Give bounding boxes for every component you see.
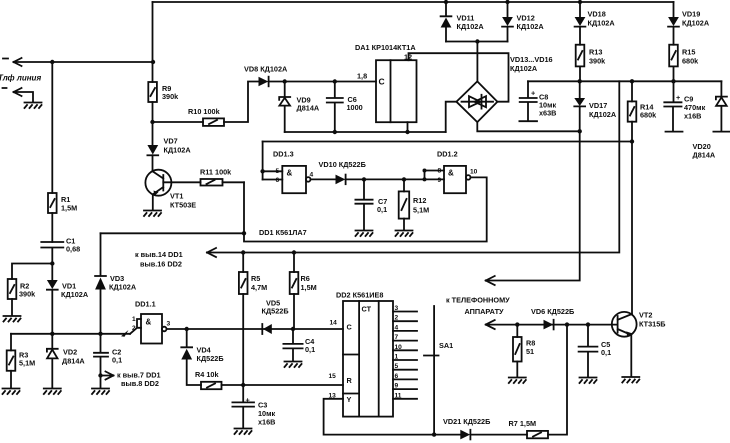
node junction VD17 top [578, 79, 582, 83]
capacitor C3 electrolytic [232, 385, 254, 428]
wire left column down from tlf junction [51, 62, 53, 193]
svg-text:0,1: 0,1 [112, 356, 122, 365]
svg-text:4: 4 [310, 172, 314, 179]
wire main left vertical top [152, 2, 154, 82]
capacitor C5 [579, 325, 598, 377]
node junction VD9 [283, 79, 287, 83]
svg-text:выв.8 DD2: выв.8 DD2 [121, 379, 159, 388]
node DD1.1 output bubble [162, 327, 167, 332]
svg-text:VT2: VT2 [639, 311, 652, 320]
zener VD2 [47, 334, 58, 388]
resistor R1 [48, 193, 57, 213]
svg-text:14: 14 [330, 320, 338, 327]
svg-text:2: 2 [395, 315, 399, 322]
wire R junction to DD2 R pin [243, 384, 343, 386]
wire R3 to ground [10, 371, 12, 388]
svg-text:DD1.1: DD1.1 [135, 300, 156, 309]
svg-text:12: 12 [404, 53, 412, 62]
svg-text:7: 7 [395, 334, 399, 341]
ground below R8 [509, 378, 526, 384]
svg-text:x16В: x16В [684, 112, 701, 121]
wire VD11 VD12 link [446, 41, 508, 43]
node junction C2 arrow takeoff [98, 373, 102, 377]
wire DD1.1 out to DD2 C [167, 328, 344, 330]
ground below VT1 emitter [144, 211, 161, 217]
svg-text:680k: 680k [640, 111, 657, 120]
node junction R2 branch [50, 261, 54, 265]
ground below R2 [4, 316, 21, 322]
node junction R10 takeoff [150, 120, 154, 124]
resistor R12 [403, 179, 405, 191]
svg-text:VD19: VD19 [682, 10, 700, 19]
svg-text:КД102А: КД102А [457, 22, 485, 31]
svg-text:КД102А: КД102А [109, 283, 137, 292]
wire R14 bottom to rail2 [631, 122, 633, 142]
node junction C4 R6 [291, 327, 295, 331]
svg-text:VT1: VT1 [170, 192, 183, 201]
resistor R10 [203, 118, 224, 126]
wire rail2 DD1 supply top [263, 141, 632, 143]
node junction VD11 top [444, 0, 448, 4]
wire R13 to junction [579, 66, 581, 81]
wire bus to R3 [10, 334, 12, 351]
node junction C6 bottom [333, 130, 337, 134]
wire DA1 pin 12 to bridge right corner [409, 53, 509, 101]
op-amp U1 DA1 box [376, 60, 417, 122]
svg-text:VD7: VD7 [164, 137, 178, 146]
capacitor C1 [41, 242, 63, 264]
node junction C6 [333, 79, 337, 83]
svg-text:9: 9 [438, 177, 442, 184]
svg-text:VD18: VD18 [588, 10, 606, 19]
ground below C4 [285, 362, 302, 368]
node junction VD12 top [505, 0, 509, 4]
wire bridge bottom to rail [477, 122, 579, 131]
svg-text:5,1М: 5,1М [19, 359, 35, 368]
node junction R15 bottom C9 [671, 79, 675, 83]
wire top rail [153, 1, 674, 3]
wire VD3 link left [101, 232, 245, 234]
wire telephone line horizontal [14, 61, 154, 63]
wire power rail to DD chips [207, 81, 619, 252]
node DD1.3 output bubble [306, 177, 311, 182]
wire rail2 corner to DD1.3 inputs [262, 142, 264, 180]
node junction VD3 bus [98, 332, 102, 336]
svg-text:КД522Б: КД522Б [262, 307, 289, 316]
wire R7 up to phone line [548, 325, 567, 435]
svg-text:5: 5 [276, 168, 280, 175]
svg-text:15: 15 [329, 373, 337, 380]
wire arrow 2 to line with ground [3, 88, 34, 102]
node junction VD4 [185, 327, 189, 331]
ground below R12 [396, 231, 413, 237]
svg-text:8: 8 [438, 168, 442, 175]
ground below R3 [3, 389, 20, 395]
capacitor C6 [327, 82, 343, 133]
svg-text:&: & [287, 169, 293, 178]
ground below arrow 2 [25, 103, 42, 109]
svg-text:1: 1 [132, 316, 136, 323]
diode VD5 [261, 324, 263, 334]
svg-text:R: R [347, 376, 353, 385]
svg-text:R4 10k: R4 10k [195, 370, 219, 379]
svg-text:R5: R5 [251, 274, 260, 283]
node junction tlf line [50, 60, 54, 64]
svg-text:Тлф линия: Тлф линия [0, 74, 41, 83]
svg-text:&: & [448, 169, 454, 178]
diode VD11 [441, 2, 452, 16]
svg-text:КД102А: КД102А [588, 19, 616, 28]
logic gate DD1.1 [141, 314, 162, 344]
resistor R8 [516, 325, 518, 337]
wire rail corner to VD20 [720, 81, 722, 96]
svg-text:680k: 680k [682, 57, 699, 66]
svg-text:10: 10 [470, 169, 478, 176]
node junction R12 [402, 177, 406, 181]
svg-text:x63В: x63В [539, 109, 556, 118]
svg-text:13: 13 [329, 393, 337, 400]
svg-text:+: + [531, 89, 535, 98]
resistor R3 [7, 350, 16, 370]
svg-text:0,1: 0,1 [601, 348, 611, 357]
diode VD21 [460, 430, 470, 440]
svg-text:5,1М: 5,1М [413, 206, 429, 215]
svg-text:Y: Y [347, 395, 352, 404]
wire arrow to telephone upper [486, 276, 495, 285]
node junction DD1.3 pin5 [260, 169, 264, 173]
svg-text:2: 2 [132, 325, 136, 332]
diode VD18 [579, 2, 581, 17]
svg-text:51: 51 [526, 347, 534, 356]
svg-text:Д814А: Д814А [62, 357, 85, 366]
svg-text:390k: 390k [589, 57, 606, 66]
svg-text:0,1: 0,1 [305, 345, 315, 354]
wire DD2 output stubs [393, 312, 417, 399]
ground below C5 [580, 378, 597, 384]
svg-text:R6: R6 [301, 274, 310, 283]
wire DD2 Y pin loop bottom [324, 399, 461, 435]
wire VD21 to R7 [470, 434, 527, 436]
svg-text:DA1 КР1014КТ1А: DA1 КР1014КТ1А [355, 43, 416, 52]
node junction bridge top feed [475, 39, 479, 43]
ground below VT2 [622, 377, 639, 383]
svg-text:SA1: SA1 [439, 341, 453, 350]
svg-text:+: + [676, 93, 680, 102]
svg-text:Д814А: Д814А [693, 151, 716, 160]
capacitor C8 electrolytic [519, 81, 537, 121]
node junction VD18 top rail [578, 0, 582, 4]
svg-text:DD1.2: DD1.2 [437, 150, 458, 159]
svg-text:VD8 КД102А: VD8 КД102А [244, 65, 288, 74]
wire arrow 1 to line [3, 58, 22, 66]
svg-text:СТ: СТ [362, 305, 372, 314]
resistor R15 [669, 45, 678, 67]
svg-text:КД102А: КД102А [517, 22, 545, 31]
node junction SA1 bottom [432, 432, 436, 436]
svg-text:4: 4 [395, 324, 399, 331]
svg-text:АППАРАТУ: АППАРАТУ [465, 307, 505, 316]
svg-text:DD2 К561ИЕ8: DD2 К561ИЕ8 [336, 291, 383, 300]
diode VD3 [95, 275, 106, 277]
svg-text:VD10 КД522Б: VD10 КД522Б [319, 160, 366, 169]
wire to bridge top corner [476, 42, 478, 82]
diode VD6 [544, 320, 554, 330]
svg-text:КТ503Е: КТ503Е [170, 201, 196, 210]
svg-text:390k: 390k [19, 290, 36, 299]
wire DD1.2 input tie [425, 171, 445, 180]
svg-text:R12: R12 [413, 196, 426, 205]
svg-text:Д814А: Д814А [297, 104, 320, 113]
svg-text:1: 1 [395, 354, 399, 361]
svg-text:6: 6 [395, 373, 399, 380]
switch SA1 [424, 306, 439, 435]
wire bridge left corner to DA1 [446, 102, 457, 132]
svg-text:C: C [347, 323, 353, 332]
svg-text:КД102А: КД102А [510, 64, 538, 73]
svg-text:R7 1,5М: R7 1,5М [509, 419, 537, 428]
wire DA1 bottom stub [407, 122, 409, 132]
wire R10 branch [153, 121, 204, 123]
svg-text:11: 11 [395, 392, 402, 399]
svg-text:1,5М: 1,5М [301, 283, 317, 292]
svg-text:9: 9 [395, 383, 399, 390]
wire bus to DD1.1 inputs [130, 319, 141, 334]
wire VT2 collector from R14 rail [631, 142, 633, 315]
capacitor C4 [283, 329, 302, 361]
wire top supply rail right [528, 80, 721, 82]
svg-text:КД102А: КД102А [682, 19, 710, 28]
diode VD8 [259, 77, 269, 87]
svg-text:VD6 КД522Б: VD6 КД522Б [531, 307, 574, 316]
wire DD1.2 out loop down to R11 [244, 177, 487, 241]
wire arrow power rail [207, 248, 216, 257]
diode VD19 [673, 2, 675, 17]
ground below C2 [92, 389, 109, 395]
svg-text:0,1: 0,1 [377, 205, 387, 214]
node junction DA1 bottom pin [405, 130, 409, 134]
svg-text:R11 100k: R11 100k [200, 168, 232, 177]
wire arrow to telephone lower [486, 320, 612, 329]
resistor R9 [148, 82, 157, 102]
svg-text:КД102А: КД102А [61, 290, 89, 299]
svg-text:3: 3 [167, 321, 171, 328]
wire VD3 column [100, 233, 102, 275]
resistor R14 [631, 81, 633, 101]
wire bottom of VD9 C6 to DA1 pin [285, 131, 446, 133]
node DD1.2 output bubble [466, 175, 471, 180]
capacitor C9 electrolytic [664, 81, 682, 131]
node junction R6 top [292, 250, 296, 254]
wire DD1.3 input stubs [263, 171, 283, 179]
diode VD12 [507, 2, 509, 17]
svg-text:R13: R13 [589, 48, 602, 57]
wire R4 to R5 column [222, 384, 244, 386]
diode VD7 [147, 145, 158, 155]
resistor R13 [576, 45, 585, 67]
wire R10 to VD8 corner [224, 82, 259, 123]
zener VD9 [279, 82, 290, 133]
zener VD20 [713, 97, 729, 132]
wire R9 to junction [152, 102, 154, 122]
resistor R6 [293, 253, 295, 273]
node junction R4 C3 R5 [241, 383, 245, 387]
svg-text:&: & [146, 318, 152, 327]
svg-text:КД102А: КД102А [589, 110, 617, 119]
logic gate DD1.2 [444, 166, 466, 193]
capacitor C7 [355, 179, 372, 229]
wire VD17 node down to phone arrow [486, 131, 580, 280]
svg-text:+: + [246, 396, 250, 405]
wire junction to VD7 [152, 122, 154, 145]
svg-text:КТ315Б: КТ315Б [639, 320, 666, 329]
label DD2 output pins [395, 305, 403, 399]
node junction main column at tlf line [151, 60, 155, 64]
svg-text:С: С [379, 77, 385, 87]
ground below VD2 [44, 389, 61, 395]
svg-text:VD21 КД522Б: VD21 КД522Б [443, 417, 490, 426]
svg-text:к ТЕЛЕФОННОМУ: к ТЕЛЕФОННОМУ [446, 296, 510, 305]
svg-text:4,7М: 4,7М [251, 283, 267, 292]
svg-text:390k: 390k [162, 92, 179, 101]
logic gate DD1.3 [282, 166, 306, 193]
node junction R14 rail2 [630, 139, 634, 143]
node junction C5 [586, 322, 590, 326]
resistor R2 [8, 279, 17, 299]
svg-text:5: 5 [395, 363, 399, 370]
svg-text:1,8: 1,8 [357, 72, 367, 81]
svg-text:VD13...VD16: VD13...VD16 [510, 55, 553, 64]
diode VD4 [181, 329, 192, 347]
svg-text:R10 100k: R10 100k [188, 107, 221, 116]
svg-text:выв.16 DD2: выв.16 DD2 [140, 260, 182, 269]
wire VD7 to VT1 collector [152, 155, 154, 171]
svg-text:0,68: 0,68 [66, 245, 80, 254]
node junction R7 riser [565, 322, 569, 326]
svg-text:DD1 К561ЛА7: DD1 К561ЛА7 [259, 228, 307, 237]
svg-text:DD1.3: DD1.3 [273, 150, 294, 159]
node junction R5 top [241, 250, 245, 254]
diode VD1 [51, 264, 53, 281]
wire VD10 to DD1.2 inputs [346, 178, 425, 180]
svg-text:R15: R15 [682, 48, 695, 57]
wire bus common [11, 333, 130, 335]
node junction VD17 bottom rail [578, 129, 582, 133]
resistor R11 [223, 181, 245, 183]
wire R2 to ground [11, 299, 13, 315]
capacitor C2 [94, 334, 108, 388]
svg-text:3: 3 [395, 305, 399, 312]
transistor VT1 [145, 170, 171, 196]
resistor R4 [201, 382, 222, 389]
svg-text:x16В: x16В [258, 418, 275, 427]
svg-text:VD17: VD17 [589, 101, 607, 110]
svg-text:VD2: VD2 [63, 348, 77, 357]
svg-text:10: 10 [395, 344, 403, 351]
wire R15 to rail [673, 66, 675, 81]
node junction R11 VD3 [242, 231, 246, 235]
wire arrow to DD pins 7 8 [101, 372, 114, 380]
wire branch to R2 [12, 264, 52, 280]
wire VD4 to R4 [187, 360, 201, 386]
resistor R5 [242, 253, 244, 273]
svg-text:к выв.14 DD1: к выв.14 DD1 [135, 250, 183, 259]
svg-text:1,5М: 1,5М [61, 204, 77, 213]
wire VD8 to DA1 input [269, 81, 376, 83]
node junction VD1 bus [50, 332, 54, 336]
transistor VT2 [612, 312, 637, 337]
svg-text:6: 6 [276, 177, 280, 184]
diode VD17 [579, 81, 581, 98]
wire R1 to C1 [51, 213, 53, 242]
node junction R14 top [630, 79, 634, 83]
svg-text:КД102А: КД102А [164, 146, 192, 155]
diode bridge VD13-VD16 [456, 81, 497, 122]
svg-text:КД522Б: КД522Б [197, 354, 224, 363]
node junction R8 [515, 322, 519, 326]
wire R11 to VT1 base [163, 181, 200, 183]
svg-text:1000: 1000 [347, 103, 363, 112]
ground below C3 [235, 429, 252, 435]
node bus triangle joint [121, 330, 129, 337]
node junction C7 [362, 177, 366, 181]
diode VD10 [336, 175, 346, 185]
ground below C7 [356, 231, 373, 237]
resistor R7 [527, 431, 548, 438]
wire DD1.3 out to VD10 [311, 178, 336, 180]
counter DD2 box [343, 301, 393, 417]
